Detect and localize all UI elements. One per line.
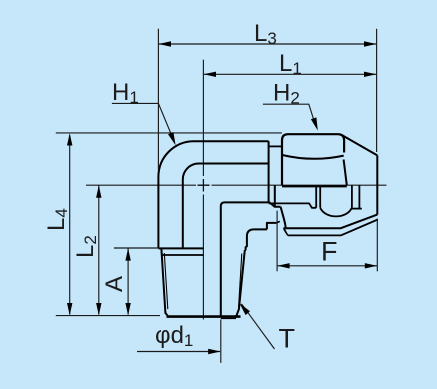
L2 top arrow — [96, 185, 101, 197]
nut lower band bottom edge — [282, 185, 347, 187]
nut internal vertical 2 — [319, 185, 321, 207]
F left arrow — [277, 263, 289, 268]
F right arrow — [365, 263, 377, 268]
L2 dimension line — [98, 186, 100, 315]
L3 right arrow — [364, 41, 376, 46]
L4 top arrow — [67, 133, 72, 145]
skirt bottom upper line — [283, 215, 377, 229]
phi-d1 extension line — [220, 320, 222, 363]
L1 extension / thread axis upper segment — [202, 60, 204, 176]
phi-d1 arrow — [208, 349, 220, 354]
A extension line — [114, 247, 158, 249]
L1 left arrow — [204, 72, 216, 77]
A dimension line — [127, 248, 129, 314]
L3 left arrow — [159, 41, 171, 46]
thread crest line — [163, 254, 204, 256]
thread shoulder — [158, 247, 203, 249]
thread base stub — [221, 317, 236, 319]
thread right flank — [236, 250, 245, 316]
nut internal vertical 1 — [315, 185, 317, 208]
thread right minor line — [239, 254, 242, 308]
thread left flank — [161, 249, 168, 316]
dimension work: thin lines — [56, 29, 378, 363]
L4 extension bottom — [56, 315, 160, 317]
nut right end face — [376, 155, 378, 214]
L1 dimension line — [204, 73, 376, 75]
L3/L1 extension right — [376, 29, 378, 152]
A bottom arrow — [125, 303, 130, 315]
L3 dimension line — [159, 43, 376, 45]
svg-text:F: F — [321, 237, 338, 267]
L1 right arrow — [364, 72, 376, 77]
nut internal vertical 3 — [351, 185, 353, 207]
L4 extension top — [56, 132, 282, 134]
neck top edge — [269, 145, 282, 147]
skirt left edge — [274, 185, 276, 206]
L4 dimension line — [69, 135, 71, 314]
svg-text:T: T — [279, 324, 296, 354]
body lower corner and bottom edge — [221, 202, 281, 316]
centerline vertical (thread axis) — [202, 195, 204, 320]
phi-d1 dimension line — [137, 351, 220, 353]
nut lower band right edge — [344, 160, 347, 186]
A top arrow — [125, 248, 130, 260]
centerline horizontal (tube axis) — [86, 184, 387, 186]
svg-text:A: A — [101, 276, 128, 292]
arrowheads — [67, 41, 377, 354]
collar step to skirt — [267, 223, 277, 230]
L2 bottom arrow — [96, 303, 101, 315]
H2 underline and leader — [263, 104, 316, 126]
F extension left — [276, 211, 278, 272]
collar profile right of thread — [245, 229, 267, 250]
skirt left diagonal — [281, 207, 286, 229]
H1 arrowhead — [168, 132, 176, 145]
body end step vertical — [268, 141, 270, 203]
elbow inner curve — [183, 164, 269, 249]
H2 arrowhead — [311, 117, 318, 130]
nut band chamfer arc — [282, 155, 343, 159]
thread left minor line — [164, 253, 168, 309]
L4 bottom arrow — [67, 303, 72, 315]
nut internal right stub — [352, 208, 362, 210]
nut internal U arc — [320, 208, 352, 217]
nut internal vertical 4 — [358, 185, 360, 208]
nut rear cone — [342, 135, 377, 155]
elbow outer curve — [158, 141, 268, 248]
center cross — [198, 179, 210, 192]
T leader — [242, 304, 275, 349]
skirt step — [276, 221, 279, 223]
F extension right — [376, 219, 378, 272]
nut top band — [282, 134, 344, 185]
L3 extension left — [157, 29, 159, 170]
thread bottom edge — [167, 315, 241, 318]
F dimension line — [278, 265, 378, 267]
skirt bottom lower line — [284, 220, 378, 236]
T arrowhead — [240, 303, 251, 315]
body bottom inner edge — [269, 203, 317, 207]
H1 underline and leader — [112, 103, 174, 141]
